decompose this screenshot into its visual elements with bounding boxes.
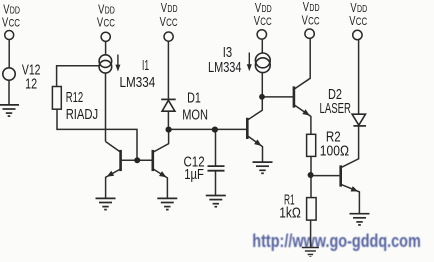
svg-text:VCC: VCC — [302, 14, 320, 28]
svg-text:VCC: VCC — [349, 15, 367, 29]
svg-text:http://www.go-gddq.com: http://www.go-gddq.com — [252, 230, 420, 251]
svg-text:VDD: VDD — [161, 2, 178, 16]
svg-text:VDD: VDD — [255, 2, 272, 16]
svg-text:I1: I1 — [142, 58, 149, 74]
svg-text:100Ω: 100Ω — [320, 143, 349, 159]
svg-text:VCC: VCC — [160, 15, 178, 29]
svg-text:LASER: LASER — [320, 101, 352, 117]
svg-text:VCC: VCC — [254, 15, 272, 29]
svg-text:VDD: VDD — [3, 3, 20, 17]
svg-text:12: 12 — [25, 77, 37, 93]
svg-text:LM334: LM334 — [120, 75, 156, 91]
svg-text:LM334: LM334 — [208, 60, 242, 76]
svg-text:D1: D1 — [187, 91, 201, 107]
svg-text:R12: R12 — [66, 90, 84, 106]
svg-text:RIADJ: RIADJ — [66, 107, 99, 123]
svg-text:1µF: 1µF — [184, 167, 204, 183]
svg-text:VCC: VCC — [97, 16, 115, 30]
svg-text:VDD: VDD — [98, 3, 115, 17]
svg-text:VDD: VDD — [303, 1, 320, 15]
svg-text:VDD: VDD — [350, 2, 367, 16]
svg-text:MON: MON — [182, 108, 208, 124]
svg-text:VCC: VCC — [2, 16, 20, 30]
svg-text:1kΩ: 1kΩ — [279, 205, 301, 221]
svg-text:I3: I3 — [223, 45, 232, 61]
